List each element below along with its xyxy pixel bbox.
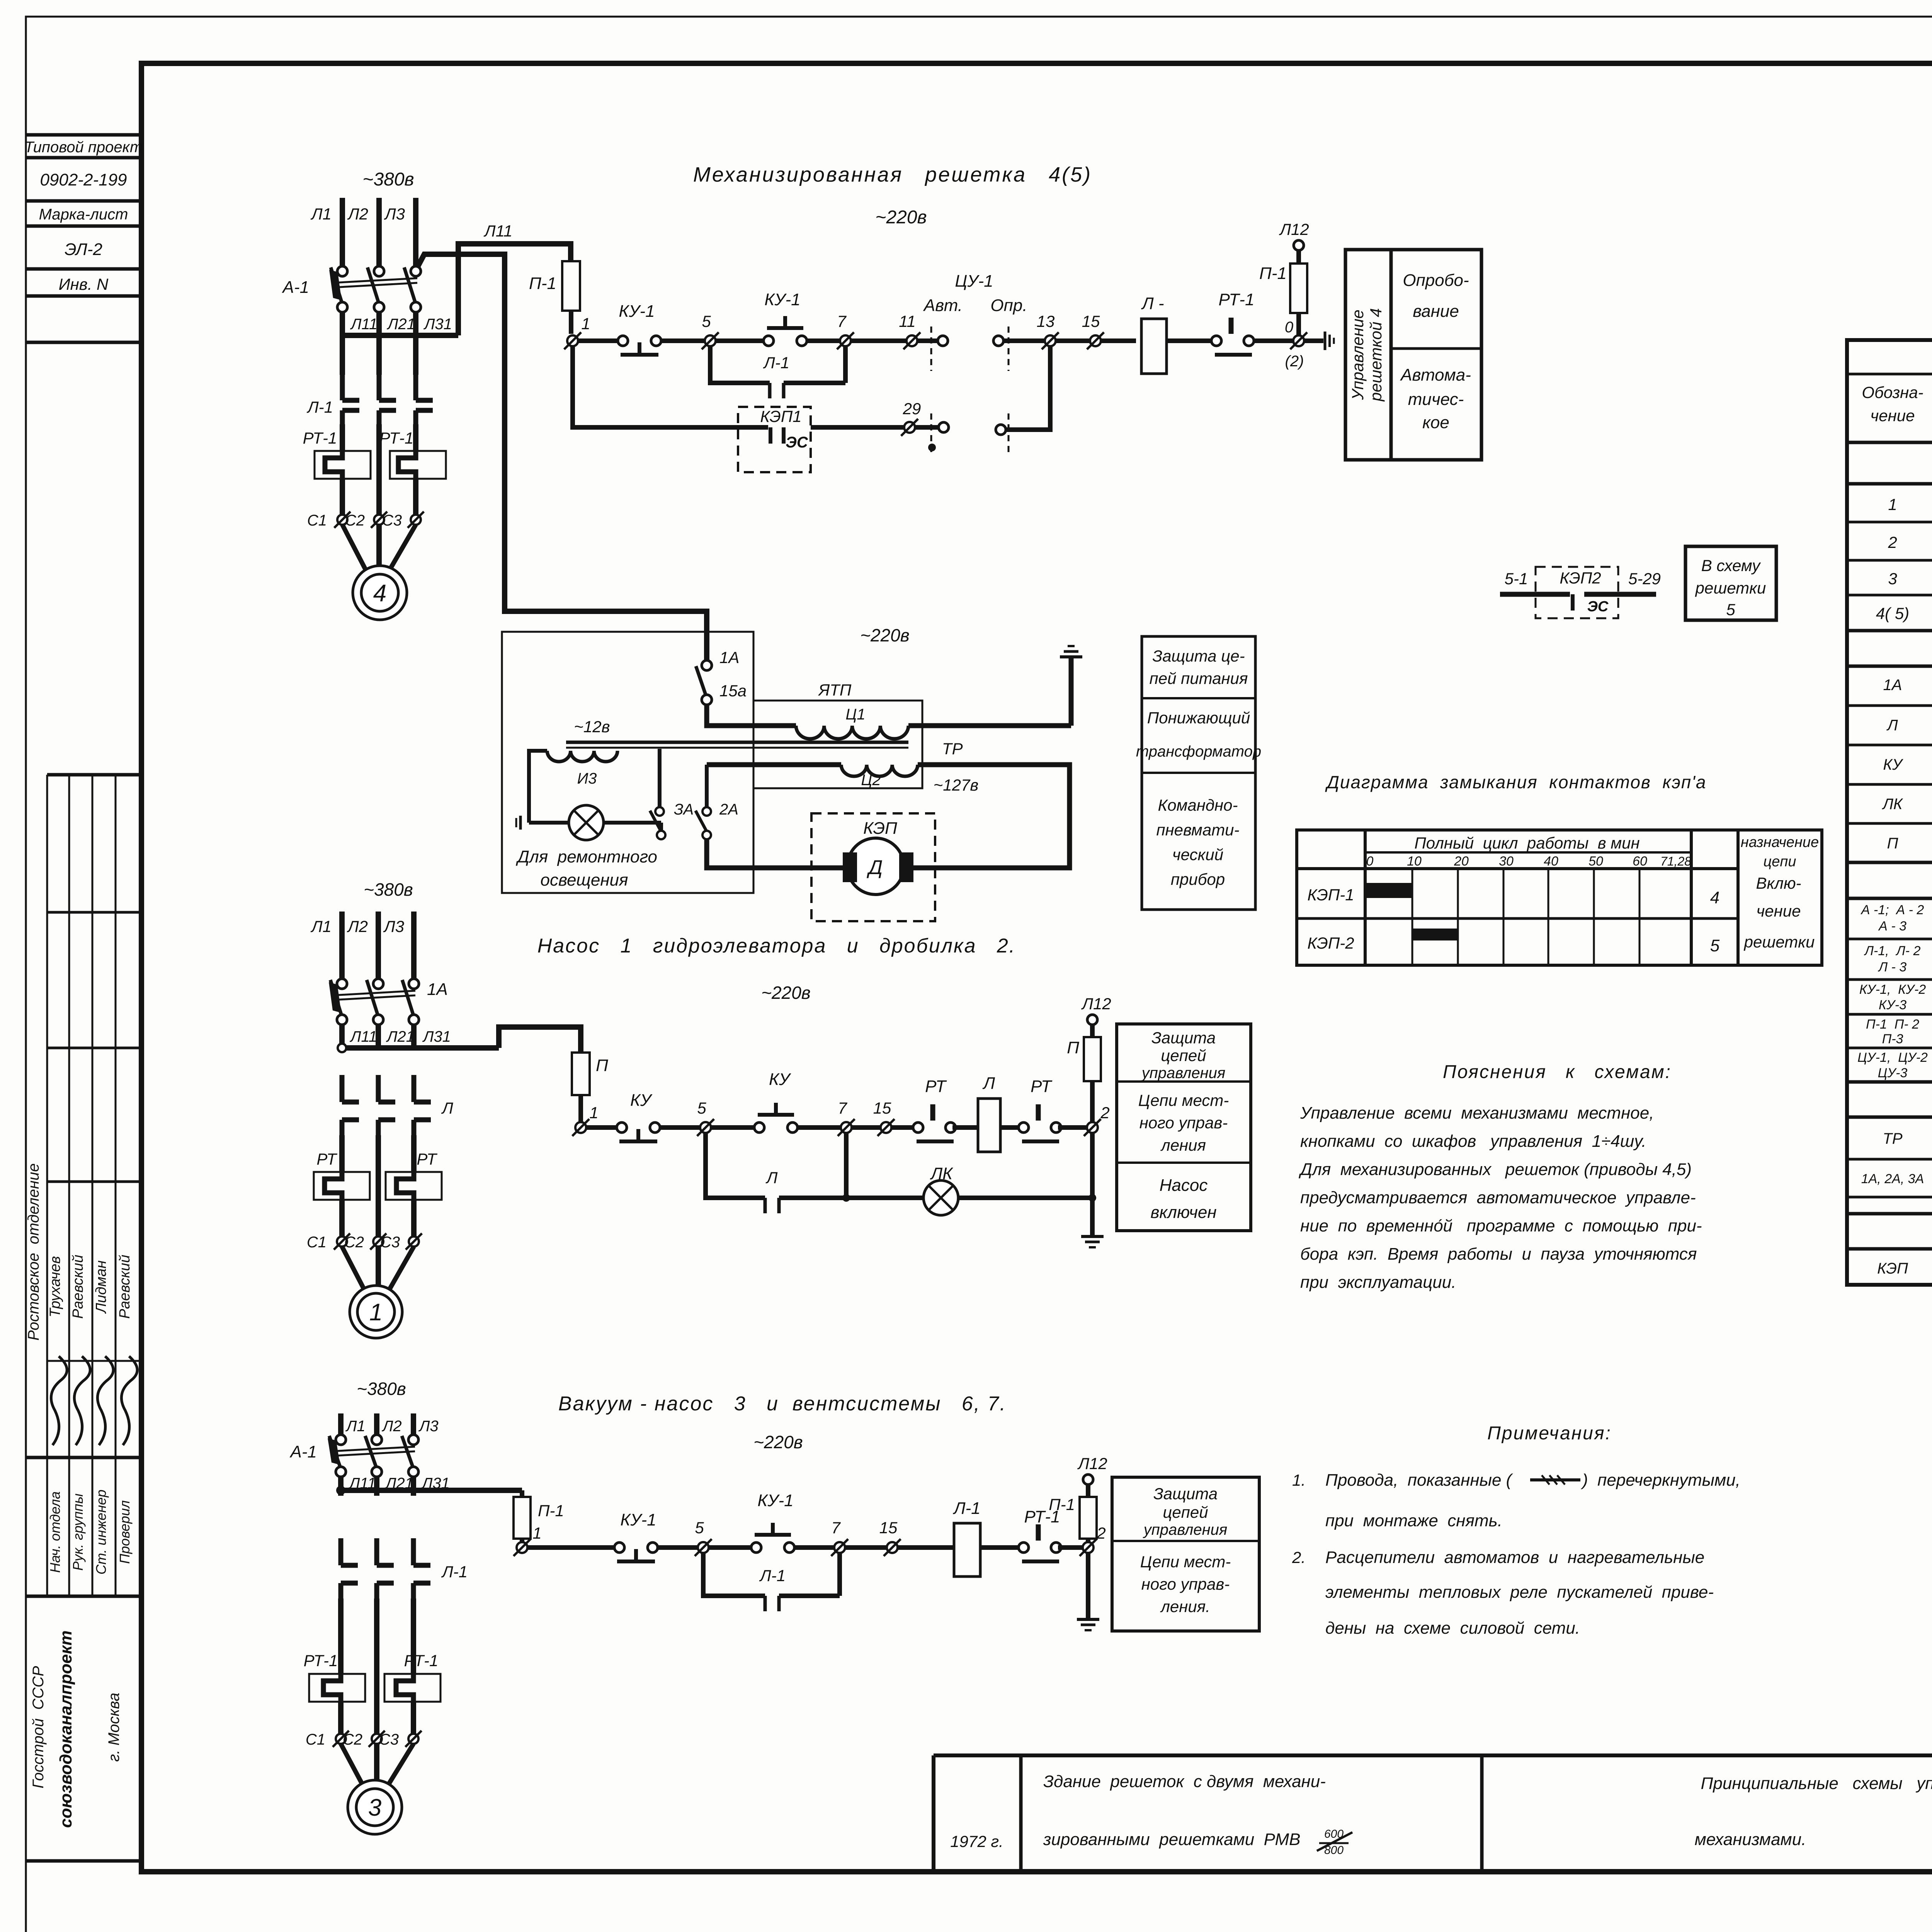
svg-text:тичес-: тичес- — [1408, 390, 1464, 409]
sidebar box empty — [26, 341, 141, 344]
label ~12в — [574, 718, 610, 736]
earth symbol circuit 3 — [1077, 1619, 1099, 1630]
svg-text:Командно-: Командно- — [1158, 796, 1238, 814]
contactor coil Л-1 circuit 3 — [952, 1499, 980, 1577]
title block grid — [934, 1755, 1932, 1872]
stamp signatures — [51, 1356, 137, 1445]
svg-text:Л31: Л31 — [423, 316, 452, 333]
svg-text:ления: ления — [1160, 1136, 1206, 1154]
thermal heaters РТ circuit 2 — [314, 1150, 442, 1202]
svg-text:ЦУ-1, ЦУ-2: ЦУ-1, ЦУ-2 — [1857, 1050, 1928, 1065]
svg-text:освещения: освещения — [540, 871, 628, 889]
svg-text:Для ремонтного: Для ремонтного — [515, 847, 657, 866]
wire row2-1 a — [586, 1125, 617, 1130]
svg-text:Ц2: Ц2 — [861, 772, 881, 789]
svg-text:1А: 1А — [427, 980, 448, 999]
svg-text:пневмати-: пневмати- — [1156, 821, 1239, 839]
svg-text:1: 1 — [581, 315, 590, 333]
svg-text:зированными решетками РМВ: зированными решетками РМВ — [1043, 1830, 1301, 1849]
transformer core lines — [566, 740, 963, 758]
svg-text:Защита: Защита — [1151, 1029, 1216, 1047]
svg-text:управления: управления — [1141, 1065, 1225, 1082]
svg-text:~380в: ~380в — [362, 169, 414, 190]
svg-text:Насос: Насос — [1160, 1176, 1208, 1195]
node 5 circuit 3 — [695, 1519, 712, 1556]
svg-text:С1: С1 — [307, 1234, 327, 1251]
svg-text:~220в: ~220в — [753, 1432, 803, 1452]
switch ЦУ-1 terminal Опр row1 — [993, 336, 1003, 346]
wires phases below bus circuit 1 — [342, 335, 416, 375]
svg-text:Л1: Л1 — [310, 205, 332, 223]
thermal contact РТ circuit 2 left — [913, 1077, 956, 1141]
chassis ground lamp — [516, 816, 569, 830]
wire node0 to fuse П-1 upper — [1296, 313, 1301, 335]
svg-text:~220в: ~220в — [761, 983, 811, 1003]
svg-text:П: П — [596, 1056, 608, 1075]
node 1 circuit 2 — [572, 1104, 599, 1136]
svg-text:механизмами.: механизмами. — [1695, 1830, 1806, 1849]
earth symbol ЯТП — [1060, 646, 1082, 657]
svg-text:при эксплуатации.: при эксплуатации. — [1300, 1273, 1456, 1292]
svg-text:5: 5 — [1726, 600, 1735, 619]
stamp org names — [30, 1630, 122, 1828]
svg-text:П: П — [1067, 1038, 1079, 1057]
svg-text:КУ-3: КУ-3 — [1879, 998, 1906, 1012]
packet switch ЦУ-1 dashed lines and labels — [923, 272, 1027, 456]
svg-text:0: 0 — [1285, 319, 1293, 336]
svg-text:4( 5): 4( 5) — [1876, 604, 1909, 622]
svg-text:А -1; А - 2: А -1; А - 2 — [1861, 903, 1924, 917]
label ~220в circuit 2 — [761, 983, 811, 1003]
svg-text:5: 5 — [1710, 936, 1720, 955]
self-hold branch circuit 1 — [710, 346, 770, 383]
svg-text:Л11: Л11 — [483, 222, 512, 240]
terminals С1 С2 С3 circuit 2 — [307, 1233, 422, 1251]
svg-text:1: 1 — [1888, 495, 1897, 514]
svg-text:7: 7 — [837, 312, 847, 330]
svg-text:КЭП1: КЭП1 — [760, 407, 801, 425]
svg-text:кнопками со шкафов управле: кнопками со шкафов управления 1÷4шу. — [1300, 1132, 1646, 1151]
svg-text:15: 15 — [1082, 312, 1100, 330]
svg-text:РТ-1: РТ-1 — [1219, 290, 1255, 309]
diagram right cell Включение решетки — [1743, 874, 1815, 951]
wire row3-1 f — [1058, 1545, 1088, 1550]
svg-text:Насос 1 гидроэлеватора и: Насос 1 гидроэлеватора и дробилка 2. — [537, 935, 1016, 957]
svg-text:Марка-лист: Марка-лист — [39, 206, 128, 223]
svg-text:Управление: Управление — [1349, 310, 1367, 400]
title Насос 1 гидроэлеватора и дробилка 2 — [537, 935, 1016, 957]
wire row2-1 e — [952, 1125, 978, 1130]
fuse П-1 upper circuit 1 — [1259, 250, 1307, 313]
breaker А-1 circuit 1 — [282, 266, 421, 312]
wire row1 h — [1254, 338, 1323, 343]
svg-text:Полный цикл работы в мин: Полный цикл работы в мин — [1414, 834, 1639, 852]
motor 4 — [353, 566, 407, 620]
svg-text:Авт.: Авт. — [923, 296, 963, 315]
svg-text:П-1: П-1 — [538, 1502, 564, 1520]
svg-text:Л1: Л1 — [310, 917, 332, 935]
svg-text:союзводоканалпроект: союзводоканалпроект — [56, 1630, 75, 1828]
svg-text:ЭС: ЭС — [786, 434, 808, 451]
node 2 circuit 2 — [1084, 1104, 1110, 1136]
svg-text:В схему: В схему — [1701, 556, 1761, 575]
wire branch to node7 circuit 1 — [784, 346, 845, 383]
svg-text:А - 3: А - 3 — [1878, 919, 1906, 934]
label ~220в ЯТП — [860, 625, 910, 645]
node 15 circuit 1 — [1082, 312, 1104, 349]
svg-text:Л12: Л12 — [1081, 995, 1111, 1013]
wire branch to node7 circuit 3 — [779, 1553, 840, 1596]
junction dot below terminal — [928, 444, 936, 451]
svg-text:РТ: РТ — [316, 1150, 338, 1168]
wire row2-1 b — [660, 1125, 700, 1130]
svg-text:ного управ-: ного управ- — [1141, 1575, 1230, 1593]
svg-text:ЭЛ-2: ЭЛ-2 — [65, 240, 102, 259]
terminals С1 С2 С3 circuit 3 — [306, 1731, 422, 1748]
box Защита цепей управления / Цепи местного управления circuit 3 — [1112, 1477, 1259, 1631]
svg-text:Л2: Л2 — [347, 917, 368, 935]
svg-text:Л-1, Л- 2: Л-1, Л- 2 — [1864, 944, 1921, 958]
svg-text:Ц1: Ц1 — [845, 706, 865, 723]
node 15 circuit 2 — [873, 1099, 895, 1136]
auxiliary contact Л circuit 2 — [765, 1168, 779, 1213]
svg-text:назначение: назначение — [1741, 834, 1819, 850]
svg-text:10: 10 — [1407, 854, 1422, 869]
svg-text:Л1: Л1 — [345, 1418, 366, 1435]
wire node2 down to ground circuit 2 — [1088, 1133, 1096, 1235]
svg-text:5: 5 — [695, 1519, 704, 1537]
svg-text:ЯТП: ЯТП — [818, 681, 852, 699]
signal lamp remont — [569, 805, 604, 840]
label Для ремонтного освещения — [515, 847, 657, 889]
start button КУ-1 circuit 3 — [751, 1491, 794, 1553]
wire phase bus circuit 1 — [342, 312, 458, 335]
main contacts Л circuit 2 — [342, 1075, 453, 1135]
svg-text:1А: 1А — [719, 648, 739, 667]
svg-text:РТ-1: РТ-1 — [404, 1651, 439, 1670]
thermal heaters РТ-1 circuit 1 — [303, 429, 446, 481]
text Примечания — [1292, 1423, 1740, 1638]
svg-text:Опр.: Опр. — [990, 296, 1027, 315]
node 2 circuit 3 — [1080, 1524, 1106, 1556]
svg-text:~127в: ~127в — [934, 776, 979, 794]
title Механизированная решетка 4(5) — [693, 163, 1092, 186]
phase feeder lines Л1 Л2 Л3 circuit 3 — [341, 1413, 439, 1435]
phase feeder lines Л1 Л2 Л3 circuit 1 — [310, 198, 416, 266]
wire row1 b — [661, 338, 705, 343]
svg-text:11: 11 — [899, 312, 916, 330]
svg-text:Управление всеми механизмами: Управление всеми механизмами местное, — [1300, 1104, 1654, 1122]
svg-text:Защита це-: Защита це- — [1152, 647, 1245, 665]
svg-text:~380в: ~380в — [357, 1379, 406, 1399]
switch 3А — [650, 801, 694, 839]
svg-text:Раевский: Раевский — [117, 1255, 133, 1319]
svg-text:А-1: А-1 — [282, 278, 309, 297]
node 5 circuit 1 — [702, 312, 719, 349]
svg-text:решетки: решетки — [1695, 579, 1766, 597]
wire lamp to switch 3А — [604, 823, 661, 831]
svg-text:КУ-1: КУ-1 — [620, 1510, 656, 1529]
svg-text:7: 7 — [831, 1519, 841, 1537]
svg-text:П-1: П-1 — [529, 274, 556, 293]
wire row2-1 d — [798, 1125, 916, 1130]
node 15 circuit 3 — [879, 1519, 901, 1556]
box Управление решеткой 4 — [1345, 250, 1481, 460]
terminal Л12 circuit 3 — [1077, 1454, 1107, 1485]
svg-text:ЦУ-3: ЦУ-3 — [1878, 1066, 1908, 1080]
wire Ц1 to earth — [908, 657, 1071, 726]
svg-text:Л -: Л - — [1141, 294, 1164, 313]
svg-text:1972 г.: 1972 г. — [950, 1832, 1003, 1850]
svg-text:Диаграмма замыкания контакто: Диаграмма замыкания контактов кэп'а — [1325, 772, 1707, 792]
terminal circle row2 — [939, 422, 949, 432]
wire row3-1 a — [527, 1545, 615, 1550]
svg-text:Ростовское отделение: Ростовское отделение — [25, 1163, 42, 1341]
switch 1А with label 15а — [696, 648, 747, 705]
svg-text:КЭП2: КЭП2 — [1560, 569, 1601, 587]
thermal contact РТ-1 circuit 3 — [1019, 1507, 1061, 1561]
svg-text:Л21: Л21 — [386, 1028, 415, 1045]
title Вакуум-насос 3 и вентсистемы 6 7 — [558, 1393, 1007, 1415]
thermal heaters РТ-1 circuit 3 — [304, 1651, 440, 1704]
svg-text:Л2: Л2 — [381, 1418, 402, 1435]
label ~380в circuit 1 — [362, 169, 414, 190]
node 1 circuit 1 — [564, 315, 590, 349]
svg-text:С1: С1 — [307, 512, 327, 529]
labels Л11 Л21 Л31 circuit 2 — [349, 1028, 451, 1045]
svg-text:КУ-1, КУ-2: КУ-1, КУ-2 — [1859, 982, 1926, 997]
equipment row КЭП — [1877, 1249, 1932, 1282]
stop button КУ-1 circuit 3 — [614, 1510, 658, 1561]
svg-text:Л: Л — [982, 1074, 995, 1093]
wire lamp to node2 vertical — [958, 1196, 1092, 1200]
wire phase bus circuit 3 — [336, 1477, 522, 1496]
title block object name — [1043, 1772, 1352, 1857]
svg-text:Л: Л — [441, 1099, 453, 1117]
main contacts Л-1 circuit 3 — [341, 1538, 468, 1599]
svg-text:1: 1 — [369, 1299, 383, 1326]
svg-text:А-1: А-1 — [289, 1442, 317, 1461]
stop button КУ-1 — [618, 302, 661, 355]
wire row1 c — [716, 338, 764, 343]
svg-text:1.: 1. — [1292, 1471, 1306, 1489]
svg-text:Примечания:: Примечания: — [1487, 1423, 1612, 1444]
wire Л31 to ЯТП feeder — [417, 254, 707, 662]
svg-text:Расцепители автоматов и наг: Расцепители автоматов и нагревательные — [1325, 1548, 1704, 1567]
wire bus to fuse П circuit 2 — [499, 1027, 581, 1053]
svg-text:Обозна-: Обозна- — [1862, 383, 1923, 401]
svg-text:Л12: Л12 — [1077, 1454, 1107, 1473]
svg-text:при монтаже снять.: при монтаже снять. — [1325, 1511, 1502, 1530]
svg-text:КУ: КУ — [769, 1070, 791, 1089]
box Защита цепей питания / Понижающий трансформатор / Командно-пневматический прибор — [1136, 636, 1261, 910]
svg-text:0: 0 — [1366, 854, 1374, 869]
wire Ц2 to КЭП right — [913, 765, 1070, 868]
svg-text:71,28: 71,28 — [1660, 854, 1691, 868]
svg-text:ние по временно́й программ: ние по временно́й программе с помощью пр… — [1300, 1216, 1702, 1235]
node 5 circuit 2 — [697, 1099, 714, 1136]
svg-text:Л-1: Л-1 — [952, 1499, 980, 1518]
transformer primary winding Ц1 — [796, 706, 908, 739]
wire И3 left to chassis — [529, 751, 547, 823]
wire Ц2-left to 2А — [707, 765, 841, 807]
svg-text:Л11: Л11 — [349, 1028, 377, 1045]
svg-text:пей питания: пей питания — [1150, 669, 1248, 687]
svg-text:ческий: ческий — [1172, 845, 1223, 864]
sidebar box ЭЛ-2 — [26, 240, 141, 269]
svg-text:2: 2 — [1100, 1104, 1109, 1122]
wire КЭП row from node 1 — [573, 346, 768, 427]
sidebar box Марка-лист — [26, 206, 141, 226]
svg-text:~12в: ~12в — [574, 718, 610, 736]
svg-text:Д: Д — [867, 856, 883, 879]
label ~380в circuit 2 — [364, 879, 413, 900]
svg-text:П-1 П- 2: П-1 П- 2 — [1866, 1017, 1919, 1032]
svg-text:ТР: ТР — [942, 740, 963, 758]
svg-text:РТ: РТ — [1031, 1077, 1053, 1096]
svg-text:ЭС: ЭС — [1587, 599, 1609, 615]
svg-text:Провода, показанные (: Провода, показанные ( — [1325, 1471, 1514, 1490]
svg-text:кое: кое — [1422, 413, 1449, 432]
svg-text:Л3: Л3 — [418, 1418, 439, 1435]
svg-text:2: 2 — [1888, 533, 1897, 551]
svg-text:ного управ-: ного управ- — [1139, 1114, 1228, 1132]
svg-text:4: 4 — [1710, 888, 1719, 907]
svg-text:7: 7 — [838, 1099, 847, 1117]
svg-text:включен: включен — [1150, 1203, 1216, 1222]
diagram row КЭП-2 with closed bar — [1307, 929, 1719, 955]
svg-text:15а: 15а — [719, 682, 747, 700]
svg-text:П-1: П-1 — [1049, 1495, 1075, 1514]
svg-text:С2: С2 — [345, 512, 365, 529]
device КЭП1 dashed box with contact — [738, 407, 811, 472]
switch 2А — [696, 801, 738, 839]
svg-text:Инв. N: Инв. N — [59, 275, 109, 293]
svg-text:40: 40 — [1544, 854, 1558, 869]
wire row2-1 c — [711, 1125, 755, 1130]
svg-text:РТ: РТ — [925, 1077, 947, 1096]
svg-text:цепей: цепей — [1161, 1046, 1206, 1065]
transformer winding И3 — [547, 751, 617, 787]
transformer secondary winding Ц2 — [841, 765, 918, 789]
terminal circle row3 Опр — [996, 425, 1006, 435]
title block sheet name — [1695, 1774, 1932, 1849]
svg-text:решетки: решетки — [1743, 933, 1815, 951]
svg-text:1: 1 — [532, 1524, 541, 1542]
svg-text:1А: 1А — [1883, 677, 1902, 694]
svg-text:Ст. инженер: Ст. инженер — [93, 1490, 109, 1575]
svg-text:Трухачев: Трухачев — [47, 1256, 63, 1318]
svg-text:~220в: ~220в — [860, 625, 910, 645]
wire row1 f — [1003, 338, 1136, 343]
equipment rows У механизма — [1876, 495, 1932, 622]
svg-text:Автома-: Автома- — [1400, 366, 1471, 384]
self-hold branch circuit 3 — [703, 1553, 765, 1596]
wire 3А to 12в line — [658, 749, 662, 807]
wire row2-1 f — [1000, 1125, 1022, 1130]
device КЭП2 contact — [1500, 567, 1661, 618]
svg-text:1: 1 — [589, 1104, 598, 1122]
svg-text:КУ: КУ — [1883, 756, 1903, 773]
node 7 circuit 1 — [837, 312, 854, 349]
stamp block grid — [26, 775, 141, 1861]
breaker А-1 circuit 3 — [289, 1435, 418, 1477]
wire row1 g — [1167, 338, 1211, 343]
sidebar box 0902-2-199 — [26, 170, 141, 201]
svg-text:С2: С2 — [344, 1234, 364, 1251]
start button КУ-1 — [764, 290, 807, 346]
svg-text:Л21: Л21 — [386, 316, 415, 333]
fuse П upper circuit 2 — [1067, 1025, 1101, 1081]
wire Опр jumper to node 13 — [1006, 346, 1050, 430]
svg-text:Защита: Защита — [1153, 1485, 1218, 1503]
phase feeder lines Л1 Л2 Л3 circuit 2 — [310, 912, 414, 979]
svg-text:Принципиальные схемы управ: Принципиальные схемы управления — [1701, 1774, 1932, 1793]
svg-text:ЗА: ЗА — [674, 801, 694, 818]
fuse П-1 upper circuit 3 — [1049, 1485, 1097, 1539]
svg-text:15: 15 — [873, 1099, 891, 1117]
svg-text:С3: С3 — [379, 1731, 399, 1748]
motor 3 — [348, 1780, 402, 1834]
svg-text:трансформатор: трансформатор — [1136, 743, 1261, 760]
wire phase bus circuit 2 — [338, 1025, 499, 1052]
svg-text:КУ-1: КУ-1 — [764, 290, 800, 309]
svg-text:29: 29 — [903, 400, 921, 418]
diagram table header — [1366, 834, 1819, 870]
svg-text:КЭП-2: КЭП-2 — [1307, 934, 1354, 952]
svg-text:Л2: Л2 — [347, 205, 368, 223]
signal lamp ЛК — [923, 1164, 958, 1215]
sidebar box Типовой проект — [24, 135, 143, 158]
wire row1 d — [807, 338, 912, 343]
wire row1 e — [917, 338, 938, 343]
wire row1 a — [578, 338, 618, 343]
contactor coil Л- — [1141, 294, 1167, 374]
diagram table grid — [1297, 830, 1822, 965]
svg-text:Нач. отдела: Нач. отдела — [47, 1492, 63, 1573]
equipment rows Шкаф 3ШУ — [1857, 901, 1932, 1080]
chassis ground row1 — [1325, 332, 1334, 350]
node 11 circuit 1 — [899, 312, 920, 349]
wire row2-1 g — [1058, 1125, 1092, 1130]
svg-text:С1: С1 — [306, 1731, 325, 1748]
svg-text:0902-2-199: 0902-2-199 — [40, 170, 127, 189]
svg-text:Механизированная решетка 4: Механизированная решетка 4(5) — [693, 163, 1092, 186]
svg-text:Л-1: Л-1 — [763, 354, 789, 372]
node 13 circuit 1 — [1037, 312, 1059, 349]
wires phases mid circuit 2 — [342, 1135, 414, 1171]
wires phases mid circuit 1 — [342, 424, 416, 450]
self-hold branch circuit 2 — [706, 1133, 765, 1198]
enclosure thin box remont lighting — [502, 632, 753, 893]
svg-text:ЦУ-1: ЦУ-1 — [955, 272, 993, 291]
fuse П-1 circuit 1 — [529, 261, 580, 334]
svg-text:Л-1: Л-1 — [306, 398, 333, 416]
svg-text:ЛК: ЛК — [1882, 796, 1903, 813]
svg-text:Лидман: Лидман — [93, 1260, 109, 1314]
svg-text:5: 5 — [702, 312, 711, 330]
svg-text:вание: вание — [1413, 302, 1459, 321]
svg-text:(2): (2) — [1285, 353, 1304, 370]
svg-text:прибор: прибор — [1171, 870, 1225, 888]
title block year — [950, 1832, 1003, 1850]
terminal Л12 circuit 1 — [1279, 220, 1309, 250]
svg-text:Здание решеток с двумя меха: Здание решеток с двумя механи- — [1043, 1772, 1326, 1791]
wire row3-1 b — [658, 1545, 698, 1550]
svg-text:13: 13 — [1037, 312, 1055, 330]
svg-text:бора кэп. Время работы и: бора кэп. Время работы и пауза уточняютс… — [1300, 1245, 1697, 1264]
svg-text:КЭП: КЭП — [863, 819, 897, 838]
